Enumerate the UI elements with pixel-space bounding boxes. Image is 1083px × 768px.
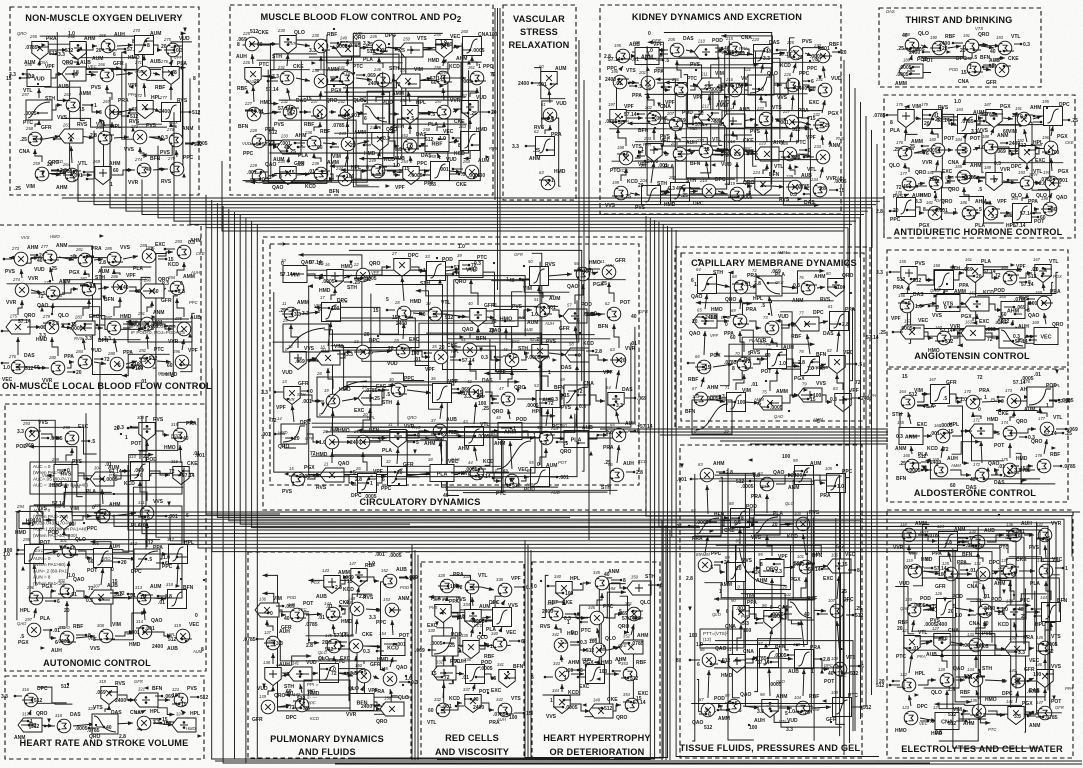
svg-text:VPF: VPF [693,95,703,101]
integrator 71 [725,385,746,412]
wire [947,149,953,151]
svg-text:.001: .001 [396,642,406,648]
svg-text:POT: POT [40,540,50,546]
svg-text:8: 8 [193,76,196,82]
svg-text:RVS: RVS [836,136,845,141]
svg-text:68: 68 [732,274,737,279]
valve block 234 [277,159,296,185]
function block 330 [428,628,458,656]
svg-text:VIM: VIM [715,71,724,77]
wire [973,147,980,150]
svg-text:72: 72 [1048,649,1054,655]
svg-text:POT: POT [920,530,929,535]
wire [263,35,327,184]
svg-text:3.3: 3.3 [294,312,301,318]
svg-text:1.0: 1.0 [779,361,786,367]
valve block 65 [693,308,717,329]
svg-text:RBF: RBF [551,426,560,431]
wire [691,591,843,703]
constant input [974,49,981,51]
svg-text:PPA: PPA [621,119,629,124]
svg-text:(12): (12) [703,637,712,642]
wire [112,170,133,175]
svg-text:PTC: PTC [988,727,997,732]
svg-text:187: 187 [984,102,992,107]
wire [320,91,321,100]
valve block 240 [336,36,360,57]
svg-text:40: 40 [1051,207,1057,213]
constant input [952,573,960,575]
wire [1000,212,1011,214]
svg-text:.01: .01 [751,382,758,388]
wire [375,285,527,370]
svg-text:3.3: 3.3 [1014,714,1021,720]
wire [263,112,279,114]
constant input [710,395,720,397]
svg-text:.069: .069 [366,73,376,79]
wire [799,154,812,157]
multiplier 20 [322,429,339,449]
svg-text:100: 100 [737,400,746,406]
constant input [322,170,330,172]
svg-text:20: 20 [350,143,356,149]
svg-text:DPC: DPC [131,569,142,575]
wire [815,566,828,567]
wire [609,282,614,302]
wire [1010,411,1014,421]
wire [61,327,72,328]
svg-text:1: 1 [551,178,554,184]
constant input [1029,149,1036,151]
svg-text:QRO: QRO [17,31,27,36]
function block 320 [88,706,118,734]
svg-text:QRO: QRO [1031,439,1043,445]
svg-text:.001: .001 [677,477,687,483]
wire [978,212,980,214]
summer 152 [381,568,397,588]
constant input [51,170,61,172]
summer 140 [288,602,304,622]
svg-text:QRO: QRO [326,98,338,104]
constant input [660,191,668,193]
svg-text:0: 0 [111,567,114,573]
constant input [1008,179,1018,181]
svg-text:AUB: AUB [150,59,161,65]
svg-text:120: 120 [905,597,913,602]
svg-text:.0005: .0005 [1027,689,1040,695]
summer 29 [393,338,410,358]
constant input [102,560,112,562]
svg-text:512: 512 [287,110,296,116]
svg-text:POT: POT [944,136,954,142]
svg-text:.0005: .0005 [771,612,784,618]
svg-text:6: 6 [521,639,524,645]
graph block 95 [736,539,791,590]
integrator 194 [1011,196,1032,223]
wire [473,621,486,635]
svg-text:.5: .5 [550,117,554,123]
wire [304,274,324,278]
constant input [1012,465,1019,467]
function block 102 [784,592,814,620]
svg-text:226: 226 [242,60,251,65]
wire [694,83,791,114]
constant input [1030,339,1037,341]
constant input [578,617,588,619]
svg-text:VVS: VVS [90,646,101,652]
constant input [354,351,364,353]
constant input [337,353,344,355]
constant input [1015,400,1023,402]
constant input [570,641,578,643]
wire [985,680,1007,681]
valve block 319 [99,679,117,705]
svg-text:QRO: QRO [1052,322,1064,328]
wire [110,597,133,598]
constant input [123,323,130,325]
svg-text:VEC: VEC [88,64,98,69]
svg-text:0: 0 [67,468,70,474]
wire [532,253,550,473]
svg-text:AHM: AHM [605,586,616,591]
wire [956,711,968,721]
constant input [461,112,468,114]
svg-text:HPL: HPL [351,165,361,171]
wire [750,614,761,619]
svg-text:39: 39 [457,253,462,258]
constant input [750,480,758,482]
svg-text:1: 1 [794,85,797,91]
block VIM 10 [281,258,307,283]
constant input [451,472,459,474]
constant input [1000,212,1008,214]
svg-text:5: 5 [953,604,956,610]
svg-text:DPC: DPC [758,340,768,345]
svg-text:.0005: .0005 [526,403,539,409]
svg-text:100: 100 [489,32,498,38]
valve block 211 [697,72,721,93]
constant input [107,638,115,640]
svg-text:15: 15 [810,397,816,403]
svg-text:3.3: 3.3 [786,727,793,733]
svg-text:109: 109 [831,690,839,695]
svg-text:AHM: AHM [27,245,38,251]
svg-text:GFR: GFR [281,625,292,631]
svg-text:339: 339 [491,600,499,605]
summer 249 [368,158,385,178]
multiplier 46 [503,347,519,367]
section box: HEART RATE AND STROKE VOLUME [5,676,204,759]
constant input [23,73,30,75]
svg-text:.0005: .0005 [75,726,88,732]
constant input [387,170,395,172]
constant input [771,710,779,712]
constant input [568,390,575,392]
constant input [339,44,346,46]
svg-text:176: 176 [896,140,904,145]
svg-text:.25: .25 [879,330,886,336]
svg-text:RBF: RBF [320,129,330,135]
svg-text:BFN: BFN [183,585,194,591]
constant input [718,84,726,86]
wire [161,288,166,291]
function block 84 [691,508,721,536]
constant input [399,681,409,683]
wire [461,62,466,173]
constant input [822,568,830,570]
constant input [399,577,407,579]
svg-text:154: 154 [379,631,387,636]
wire [332,411,333,430]
wire [341,441,352,443]
wire [388,47,400,50]
svg-text:KCD: KCD [54,159,63,164]
summer 231 [815,77,832,97]
constant input [301,111,311,113]
svg-text:63: 63 [539,170,544,175]
wire [935,704,1023,705]
wire [742,119,755,121]
constant input [1028,680,1036,682]
constant input [87,178,94,180]
constant input [258,612,268,614]
svg-text:6: 6 [577,318,580,324]
svg-text:15: 15 [600,645,606,651]
constant input [827,485,835,487]
constant input [429,649,436,651]
wire [277,705,291,707]
constant input [805,474,813,476]
constant input [922,145,929,147]
svg-text:320: 320 [88,706,96,711]
svg-text:141: 141 [1006,699,1013,704]
svg-text:DAS: DAS [683,36,694,42]
svg-text:5: 5 [785,711,788,717]
constant input [340,605,348,607]
integrator 99 [793,458,814,485]
wire [630,193,640,195]
constant input [992,570,1002,572]
wire [700,511,807,644]
wire [746,658,758,663]
svg-text:57.14: 57.14 [462,358,475,364]
svg-text:AUM: AUM [150,31,161,37]
svg-text:.25: .25 [899,461,906,467]
wire [905,107,918,135]
svg-text:.0785: .0785 [873,113,886,119]
constant input [175,45,182,47]
constant input [774,563,781,565]
svg-text:0: 0 [73,254,76,260]
wire [454,646,460,649]
wire [312,327,635,423]
svg-text:30: 30 [389,377,394,382]
svg-text:AUH: AUH [947,456,958,462]
summer 176 [896,140,912,160]
svg-text:PLA: PLA [363,57,373,63]
svg-text:3.3: 3.3 [757,709,764,715]
constant input [553,706,563,708]
multiplier 236 [311,68,328,88]
wire [298,143,303,147]
svg-text:349: 349 [593,698,601,703]
svg-text:AMM: AMM [699,552,710,557]
wire [916,303,937,306]
wire [704,331,705,355]
wire [989,125,1054,206]
svg-text:1: 1 [564,675,567,681]
multiplier 100 [794,511,810,531]
svg-text:191: 191 [963,33,970,38]
wire [1003,118,1013,119]
wire [137,719,161,729]
wire [984,273,999,278]
svg-text:40: 40 [123,285,129,291]
wire [41,550,153,552]
valve block 138 [1002,599,1026,620]
svg-text:AUH: AUH [190,270,201,275]
wire [118,695,135,700]
svg-text:RVS: RVS [938,105,949,111]
svg-text:QRO: QRO [278,444,290,450]
constant input [168,290,176,292]
summer 323 [172,687,188,707]
multiplier 229 [785,174,802,194]
valve block 157 [900,319,924,340]
wire [31,290,42,293]
wire [584,314,603,316]
svg-text:KCD: KCD [619,168,628,173]
wire [964,134,967,138]
svg-text:VIM: VIM [414,67,423,73]
constant input [293,707,301,709]
constant input [180,111,190,113]
summer 340 [491,631,507,651]
summer 156 [898,293,914,313]
svg-text:318: 318 [55,713,63,718]
svg-text:64: 64 [696,267,701,272]
svg-text:51: 51 [534,297,539,302]
constant input [907,148,914,150]
constant input [756,622,763,624]
svg-text:40: 40 [183,436,189,442]
svg-text:0: 0 [761,87,764,93]
svg-text:NON-MUSCLE OXYGEN DELIVERY: NON-MUSCLE OXYGEN DELIVERY [25,13,183,23]
svg-text:PPC: PPC [376,620,387,626]
svg-text:246: 246 [373,67,382,72]
valve block 147 [349,561,367,587]
svg-text:GFR: GFR [113,61,124,67]
wire [977,283,1053,296]
constant input [138,516,145,518]
svg-text:VVS: VVS [742,558,753,564]
multiplier 41 [461,337,477,357]
constant input [110,49,117,51]
wire [143,55,145,61]
svg-text:KCD: KCD [998,622,1009,628]
svg-text:.0785: .0785 [243,637,256,643]
wire [635,152,643,158]
svg-text:3.3: 3.3 [309,48,316,54]
constant input [112,561,119,563]
constant input [341,471,351,473]
svg-text:1.0: 1.0 [68,573,75,579]
svg-text:.069: .069 [295,359,305,365]
svg-text:8: 8 [132,39,135,45]
svg-text:1.0: 1.0 [163,555,170,561]
constant input [61,323,69,325]
svg-text:HMO: HMO [928,348,940,354]
svg-text:8: 8 [623,578,626,584]
svg-text:VPF: VPF [710,333,719,338]
svg-text:90: 90 [731,598,736,603]
summer 49 [503,468,519,488]
summer 246 [373,67,390,87]
wire [342,398,359,401]
svg-text:13: 13 [282,379,287,384]
summer 338 [496,577,512,597]
svg-text:VIM: VIM [1008,129,1017,135]
wire [376,124,380,129]
svg-text:3.3: 3.3 [276,641,283,647]
summer 264 [62,162,79,182]
svg-text:VTL: VTL [1049,259,1058,265]
svg-text:8: 8 [279,174,282,180]
svg-text:72: 72 [512,354,518,360]
wire [769,668,770,696]
svg-text:512: 512 [145,540,154,546]
svg-text:2.8: 2.8 [604,54,611,60]
constant input [960,569,967,571]
constant input [557,441,567,443]
svg-text:VTL: VTL [807,167,816,173]
wire [779,707,792,709]
wire [761,95,766,107]
wire [436,628,454,682]
svg-text:40: 40 [676,186,682,192]
wire [733,131,737,140]
svg-text:.0005: .0005 [899,65,912,71]
constant input [745,571,753,573]
constant input [411,269,421,271]
svg-text:207: 207 [666,111,675,116]
constant input [923,393,931,395]
constant input [298,617,306,619]
constant input [82,104,92,106]
svg-text:2400: 2400 [473,705,484,711]
svg-text:57.14: 57.14 [1044,431,1057,437]
valve block 141 [288,661,312,682]
constant input [1045,268,1052,270]
wire [326,321,561,439]
multiplier 218 [727,139,744,159]
multiplier 22 [353,262,370,282]
svg-text:KCD: KCD [124,481,135,487]
svg-text:.0005: .0005 [322,279,335,285]
wire [486,473,501,481]
constant input [132,364,139,366]
constant input [710,521,717,523]
svg-text:DAS: DAS [129,319,138,324]
wire [49,49,67,51]
svg-text:GFR: GFR [41,125,52,131]
wire [268,175,277,176]
wire [383,74,394,158]
svg-text:353: 353 [621,661,629,666]
svg-text:GFR: GFR [1055,705,1064,710]
svg-text:15: 15 [564,393,570,399]
constant input [465,435,475,437]
